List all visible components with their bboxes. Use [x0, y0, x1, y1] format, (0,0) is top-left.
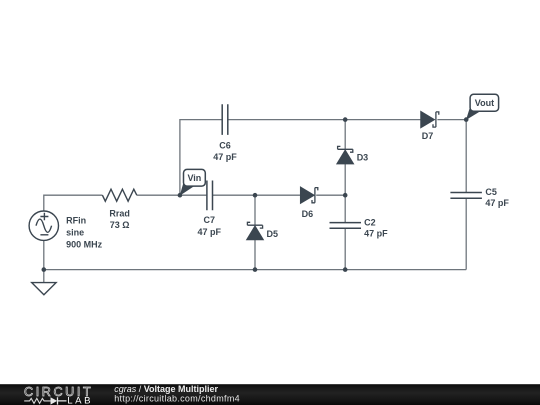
junction dot C2 bottom — [343, 267, 348, 272]
wire C2 top — [344, 195, 346, 222]
svg-text:47 pF: 47 pF — [198, 227, 222, 237]
wire D3 branch top — [344, 120, 346, 150]
capacitor C7 — [207, 181, 213, 211]
svg-text:C7: C7 — [204, 215, 216, 225]
wire D7 cathode to Vout node — [437, 119, 466, 121]
wire resistor to C7 left plate (through Vin node) — [137, 194, 207, 196]
label C7 47pF — [198, 215, 222, 237]
svg-text:D5: D5 — [267, 229, 279, 239]
wire C5 bottom to bottom rail — [465, 198, 467, 269]
wire Vout to C5 top — [465, 120, 467, 193]
junction dot D5 bottom — [253, 267, 258, 272]
junction dot Vin node — [178, 193, 183, 198]
junction dot top rail x=345 — [343, 117, 348, 122]
wire source bottom to ground node — [43, 240, 45, 269]
svg-text:sine: sine — [66, 227, 84, 237]
junction dot D5 top — [253, 193, 258, 198]
wire D5 branch bottom — [254, 240, 256, 270]
wire D6 cathode to node at x=345 — [316, 194, 345, 196]
svg-text:C5: C5 — [485, 187, 497, 197]
label C2 47pF — [364, 217, 388, 238]
svg-text:47 pF: 47 pF — [364, 228, 388, 238]
svg-text:RFin: RFin — [66, 216, 86, 226]
svg-text:Vin: Vin — [187, 173, 201, 183]
label C5 47pF — [485, 187, 509, 208]
wire ground node to ground symbol — [43, 270, 45, 283]
junction dot ground — [42, 267, 47, 272]
label RFin sine 900 MHz — [66, 216, 103, 250]
junction dot Vout node — [464, 117, 469, 122]
svg-text:47 pF: 47 pF — [485, 198, 509, 208]
label C6 47pF — [213, 140, 237, 162]
svg-text:73 Ω: 73 Ω — [110, 220, 130, 230]
wire C7 right plate to D6 anode — [213, 194, 301, 196]
wire C2 bottom — [344, 228, 346, 269]
svg-text:LAB: LAB — [67, 395, 93, 405]
wire D5 branch top — [254, 195, 256, 225]
diode D3 (schottky, pointing up) — [337, 146, 353, 163]
svg-text:47 pF: 47 pF — [213, 152, 237, 162]
wire C6 to D7 anode (through node x=345) — [228, 119, 421, 121]
label Rrad 73 ohm — [109, 209, 130, 231]
wire Vin riser — [180, 120, 222, 196]
junction dot D3/C2 node — [343, 193, 348, 198]
svg-text:900 MHz: 900 MHz — [66, 239, 103, 249]
capacitor C6 — [222, 104, 228, 135]
capacitor C2 — [330, 223, 362, 229]
svg-text:Rrad: Rrad — [109, 209, 130, 219]
diode D7 (schottky, pointing right) — [421, 112, 439, 128]
diode D6 (schottky, pointing right) — [301, 187, 318, 203]
svg-text:D6: D6 — [302, 209, 314, 219]
CircuitLab logo diode glyph — [51, 397, 58, 404]
wire source top to resistor — [44, 195, 103, 211]
svg-text:Vout: Vout — [475, 98, 494, 108]
CircuitLab logo resistor squiggle — [24, 398, 50, 403]
node label Vout — [466, 94, 499, 120]
svg-text:D7: D7 — [422, 131, 434, 141]
svg-text:C2: C2 — [364, 217, 376, 227]
svg-text:D3: D3 — [357, 153, 369, 163]
ground — [32, 283, 56, 295]
svg-text:http://circuitlab.com/chdmfm4: http://circuitlab.com/chdmfm4 — [114, 393, 240, 403]
footer banner — [0, 384, 540, 405]
wire D3 branch bottom — [344, 164, 346, 196]
capacitor C5 — [450, 193, 482, 199]
voltage source V1 RFin — [29, 211, 58, 240]
diode D5 (schottky, pointing up) — [247, 222, 263, 239]
svg-text:C6: C6 — [219, 140, 231, 150]
resistor Rrad — [102, 189, 136, 201]
node label Vin — [180, 169, 206, 195]
wire bottom rail — [44, 269, 466, 271]
